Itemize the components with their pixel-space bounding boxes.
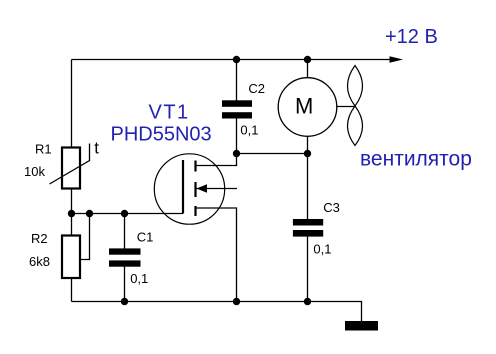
svg-text:PHD55N03: PHD55N03 xyxy=(111,124,212,146)
svg-text:вентилятор: вентилятор xyxy=(360,148,472,171)
svg-text:M: M xyxy=(295,94,313,119)
svg-text:C3: C3 xyxy=(323,200,340,215)
svg-text:C2: C2 xyxy=(248,81,265,96)
svg-text:+12 В: +12 В xyxy=(385,26,438,48)
svg-text:t: t xyxy=(94,139,99,158)
svg-text:0,1: 0,1 xyxy=(313,242,331,257)
svg-text:R2: R2 xyxy=(31,231,48,246)
svg-text:R1: R1 xyxy=(35,142,52,157)
svg-text:0,1: 0,1 xyxy=(130,271,148,286)
svg-text:10k: 10k xyxy=(24,164,45,179)
svg-text:C1: C1 xyxy=(137,230,154,245)
svg-text:VT1: VT1 xyxy=(149,102,190,124)
svg-text:6k8: 6k8 xyxy=(29,254,50,269)
svg-text:0,1: 0,1 xyxy=(240,123,258,138)
